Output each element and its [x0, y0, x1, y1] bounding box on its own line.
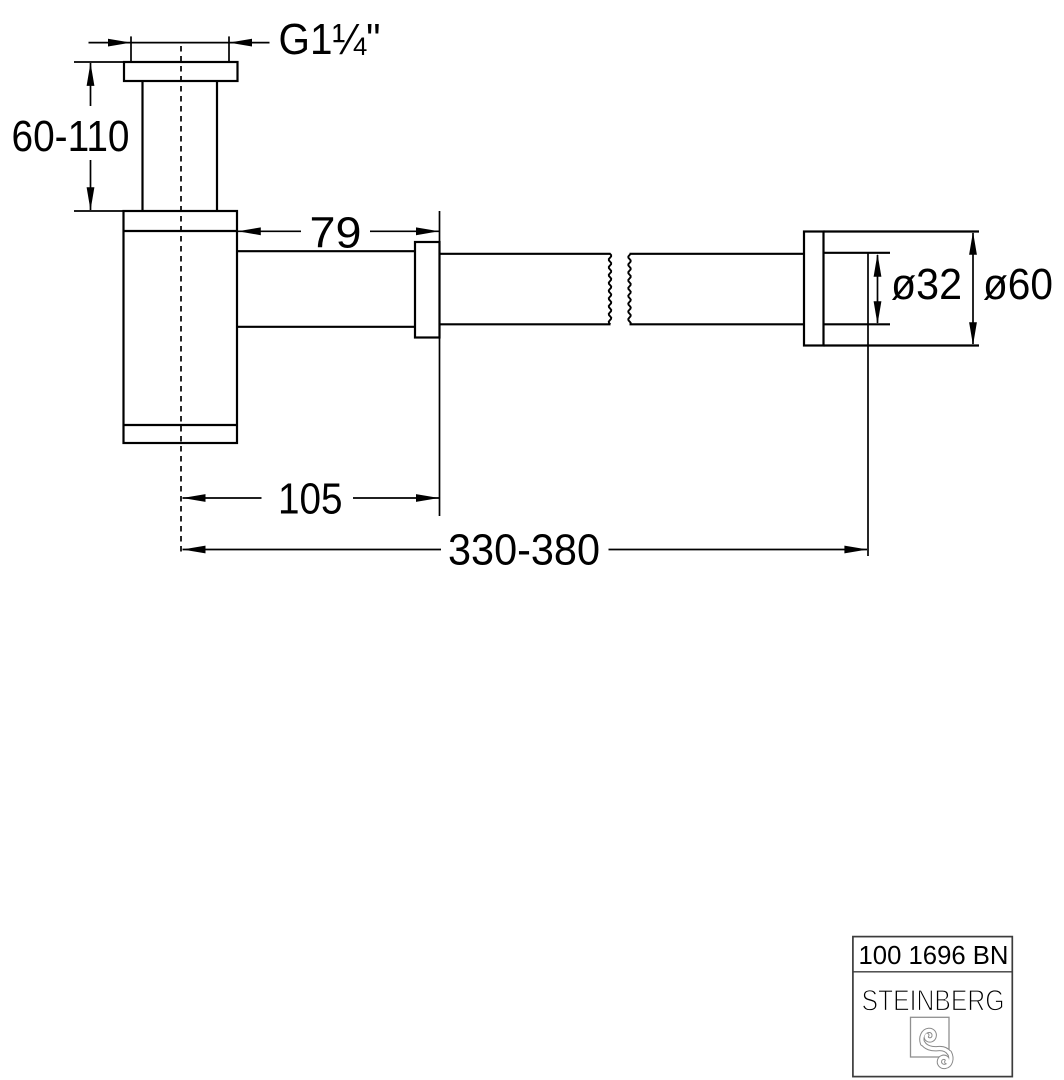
pipe break torn edge left: [609, 254, 611, 324]
telescopic tube top edge (right of break): [630, 253, 805, 255]
dimension G1 1/4 thread: dimension line with arrows: [89, 39, 270, 47]
logo square: [911, 1017, 950, 1057]
telescopic tube bottom edge (right of break): [630, 323, 805, 325]
dimension diameter 60: line with arrows: [969, 232, 977, 345]
svg-text:G1¼": G1¼": [279, 15, 381, 64]
extension line at nut (tube end plane): [439, 211, 441, 516]
tailpiece pipe right edge: [216, 81, 218, 211]
dimension 60-110: bottom extension line: [74, 210, 124, 212]
dimension 60-110: dimension line with arrows: [87, 63, 95, 210]
tube inside socket bottom edge: [824, 323, 891, 325]
svg-text:STEINBERG: STEINBERG: [862, 985, 1005, 1018]
wall socket outer bottom edge: [824, 344, 980, 346]
svg-text:ø60: ø60: [983, 260, 1053, 309]
dimension G1 1/4 thread: left extension line: [130, 36, 132, 62]
dimension diameter 32: line with arrows: [874, 254, 882, 324]
dimension 330-380: dimension line with arrows: [183, 546, 868, 554]
wall socket outer top edge: [824, 230, 980, 232]
extension line at right tube end: [867, 254, 869, 557]
dimension 105: dimension line with arrows: [183, 494, 440, 502]
telescopic tube top edge (left of break): [440, 253, 611, 255]
svg-text:ø32: ø32: [891, 260, 962, 309]
wall flange: [804, 232, 824, 346]
dimension 79: dimension line with arrows: [238, 227, 440, 235]
svg-text:105: 105: [278, 475, 343, 524]
centerline (dashed): [180, 46, 182, 556]
tube inside socket top edge: [824, 252, 891, 254]
svg-text:60-110: 60-110: [12, 112, 130, 161]
dimension 60-110: top extension line: [74, 61, 124, 63]
svg-text:330-380: 330-380: [448, 526, 600, 575]
dimension G1 1/4 thread: right extension line: [228, 36, 230, 62]
outlet sleeve pipe bottom edge: [237, 326, 415, 328]
title block divider: [853, 971, 1012, 973]
telescopic tube bottom edge (left of break): [440, 323, 611, 325]
compression nut: [415, 242, 440, 338]
trap body (cup): [124, 211, 238, 443]
tailpiece slip flange: [124, 62, 238, 81]
svg-text:100 1696 BN: 100 1696 BN: [859, 942, 1009, 970]
outlet sleeve pipe top edge: [237, 250, 415, 252]
tailpiece pipe left edge: [141, 81, 143, 211]
pipe break torn edge right: [628, 254, 630, 324]
title block frame: [853, 937, 1012, 1077]
logo swirl mark: [922, 1030, 951, 1066]
